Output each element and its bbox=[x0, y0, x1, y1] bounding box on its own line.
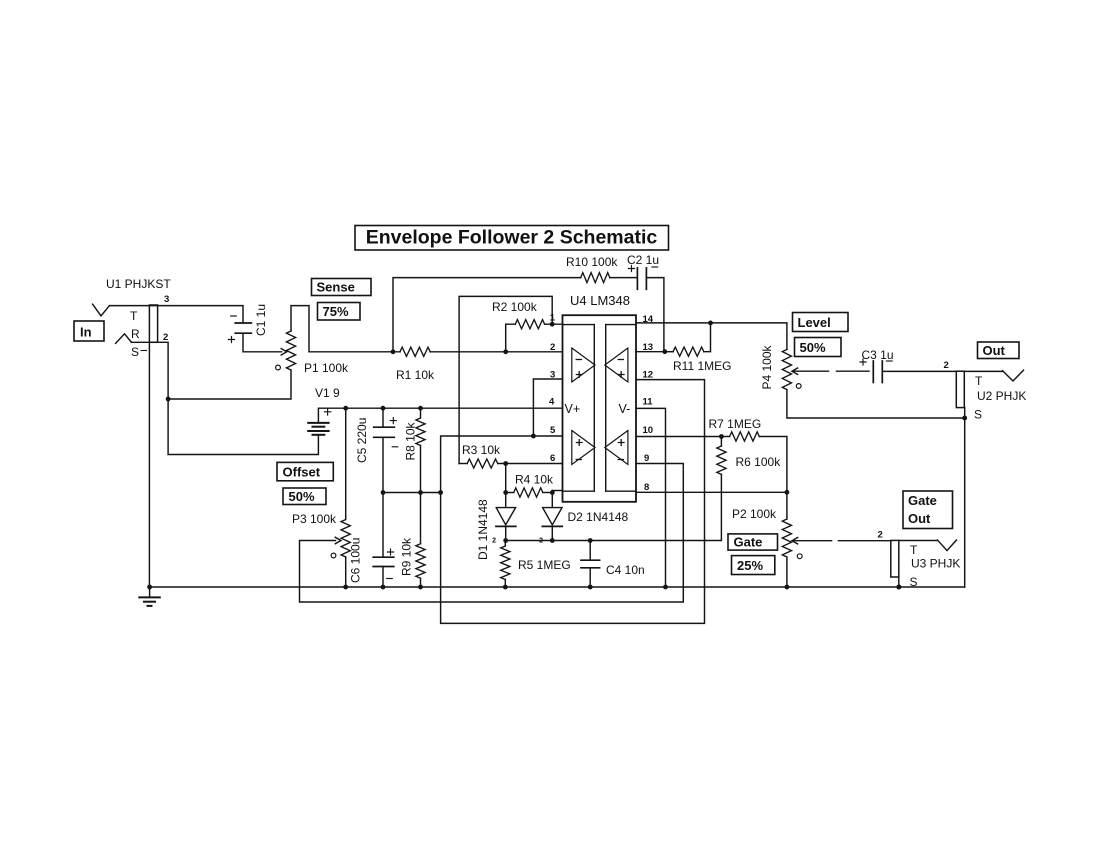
wire P1 top to sense line bbox=[291, 306, 400, 352]
label box Out bbox=[978, 342, 1020, 359]
potentiometer P2 label bbox=[732, 507, 777, 521]
wire R5 bottom leg bbox=[504, 580, 506, 588]
junction U3 sleeve bbox=[896, 585, 901, 590]
wire P1 bottom bbox=[168, 370, 291, 399]
capacitor C6 value label bbox=[349, 538, 363, 583]
svg-text:2: 2 bbox=[878, 530, 883, 541]
svg-text:D2 1N4148: D2 1N4148 bbox=[568, 510, 629, 524]
capacitor C2 polarity bbox=[629, 266, 658, 272]
resistor R11 zigzag bbox=[673, 347, 704, 356]
svg-text:2: 2 bbox=[944, 360, 949, 371]
junction V+ rail / R8 bbox=[418, 406, 423, 411]
junction pin13/C2/R11 bbox=[662, 349, 667, 354]
jack U3 labels bbox=[910, 543, 961, 589]
junction C4/rail bbox=[588, 538, 593, 543]
svg-text:Gate: Gate bbox=[908, 493, 937, 508]
svg-text:P3 100k: P3 100k bbox=[292, 512, 337, 526]
op-amp U4 triangle C bbox=[605, 348, 628, 382]
svg-text:Envelope Follower 2 Schematic: Envelope Follower 2 Schematic bbox=[366, 227, 658, 249]
wire R4 right lead bbox=[543, 492, 553, 494]
label box 50% left bbox=[283, 488, 326, 505]
svg-text:8: 8 bbox=[644, 482, 649, 493]
diode D1 value label bbox=[476, 499, 490, 560]
battery V1 plates bbox=[308, 423, 328, 435]
capacitor C5 plates bbox=[374, 427, 395, 437]
svg-text:V1 9: V1 9 bbox=[315, 386, 340, 400]
resistor R4 label bbox=[515, 473, 554, 487]
svg-text:C6 100u: C6 100u bbox=[349, 538, 363, 583]
jack U2 labels bbox=[974, 374, 1026, 422]
wire detector rail bbox=[506, 474, 722, 540]
svg-text:R3 10k: R3 10k bbox=[462, 443, 501, 457]
svg-text:R6 100k: R6 100k bbox=[736, 455, 782, 469]
pin 2 label bbox=[550, 342, 555, 353]
pin 8 label bbox=[644, 482, 649, 493]
capacitor C5 value label bbox=[355, 418, 369, 463]
op-amp U4 inner lines bbox=[563, 325, 637, 492]
junction rail/C6 bbox=[381, 585, 386, 590]
capacitor C3 plates bbox=[873, 361, 882, 383]
capacitor C3 polarity bbox=[860, 359, 892, 365]
diode D2 value label bbox=[568, 510, 629, 524]
capacitor C4 plates bbox=[581, 560, 600, 568]
wire C4 bottom leg bbox=[589, 568, 591, 587]
wire R11 left lead bbox=[665, 351, 673, 353]
wire pin7 stub bbox=[552, 490, 562, 492]
svg-text:C4 10n: C4 10n bbox=[606, 563, 645, 577]
wire V+ rail battery to pin4 bbox=[318, 408, 562, 423]
resistor R11 label bbox=[673, 359, 731, 373]
resistor R2 zigzag bbox=[515, 320, 544, 329]
junction rail/U3 sleeve bbox=[897, 585, 902, 590]
svg-text:T: T bbox=[910, 543, 918, 557]
resistor R6 label bbox=[736, 455, 782, 469]
resistor R10 label bbox=[566, 255, 618, 269]
potentiometer P2 zigzag bbox=[782, 519, 791, 557]
wire R2 left leg bbox=[506, 324, 516, 352]
jack U3 tip wire and hook bbox=[899, 540, 957, 551]
pin 6 label bbox=[550, 453, 555, 464]
label box Gate Out bbox=[903, 491, 953, 529]
wire R3 left lead bbox=[459, 463, 467, 465]
label box Offset bbox=[277, 462, 333, 480]
pin 14 label bbox=[643, 314, 654, 325]
wire C3 to jack U2 bbox=[882, 370, 956, 372]
svg-text:Out: Out bbox=[908, 511, 931, 526]
wire R8 bottom leg bbox=[420, 446, 422, 493]
junction feedback-rail/pin2 wire bbox=[391, 349, 396, 354]
svg-text:75%: 75% bbox=[323, 304, 349, 319]
capacitor C1 value label bbox=[254, 304, 268, 336]
junction R4 right / pin7 / D2 bbox=[550, 490, 555, 495]
jack U1 PHJKST label bbox=[106, 277, 171, 291]
svg-text:P1 100k: P1 100k bbox=[304, 361, 349, 375]
junction rail/R5 bbox=[503, 585, 508, 590]
resistor R3 label bbox=[462, 443, 501, 457]
wire pin3 to pin5 junction bbox=[533, 379, 562, 436]
svg-text:U1 PHJKST: U1 PHJKST bbox=[106, 277, 171, 291]
jack U3 body bbox=[891, 540, 899, 577]
jack U2 tip wire and hook bbox=[964, 370, 1023, 381]
wire pin5 to bias corner bbox=[441, 436, 563, 493]
capacitor C4 value label bbox=[606, 563, 645, 577]
junction pin14/R11 bbox=[708, 321, 713, 326]
junction D1/R5/rail bbox=[503, 538, 508, 543]
junction rail/P2 bbox=[785, 585, 790, 590]
battery V1 label bbox=[315, 386, 340, 400]
junction U2 sleeve bbox=[962, 416, 967, 421]
resistor R10 zigzag bbox=[581, 273, 610, 283]
label box 50% right bbox=[795, 338, 842, 357]
resistor R2 label bbox=[492, 300, 538, 314]
svg-text:R11 1MEG: R11 1MEG bbox=[673, 359, 731, 373]
potentiometer P1 zigzag bbox=[286, 331, 295, 370]
wire P2 bottom leg bbox=[786, 557, 788, 587]
junction pin8/R7/P2 bbox=[785, 490, 790, 495]
wire R9 top leg bbox=[420, 493, 422, 544]
ground rail bbox=[149, 586, 964, 588]
junction R2/pin2 wire bbox=[503, 349, 508, 354]
op-amp U4 V- label bbox=[619, 402, 631, 416]
potentiometer P4 value label bbox=[760, 344, 774, 389]
jack U2 pin2 label bbox=[944, 360, 949, 371]
svg-text:2: 2 bbox=[163, 332, 168, 343]
svg-text:50%: 50% bbox=[800, 340, 826, 355]
potentiometer P4 zigzag bbox=[782, 349, 791, 389]
potentiometer P2 wiper wire bbox=[792, 538, 891, 544]
junction V+ rail / C5 bbox=[381, 406, 386, 411]
svg-text:U4 LM348: U4 LM348 bbox=[570, 293, 630, 308]
label box Level bbox=[793, 313, 849, 332]
jack U1 pin 2 label bbox=[163, 332, 168, 343]
wire pin1 loop to R3 bbox=[459, 296, 552, 463]
wire U3 sleeve stub bbox=[898, 577, 900, 587]
svg-text:6: 6 bbox=[550, 453, 555, 464]
svg-text:R4 10k: R4 10k bbox=[515, 473, 554, 487]
ground symbol bbox=[139, 587, 160, 606]
pin 12 label bbox=[643, 370, 654, 381]
junction rail/pin11 bbox=[663, 585, 668, 590]
wire P3 bottom leg bbox=[345, 557, 347, 587]
svg-text:P4 100k: P4 100k bbox=[760, 344, 774, 389]
wire bias to pin12 bbox=[441, 380, 705, 624]
junction R3/pin6/D1 branch bbox=[503, 461, 508, 466]
junction pin10/R7/R6 bbox=[719, 434, 724, 439]
svg-text:Sense: Sense bbox=[317, 280, 355, 295]
jack U1 pin 3 label bbox=[164, 294, 169, 305]
svg-text:P2 100k: P2 100k bbox=[732, 507, 777, 521]
potentiometer P2 body circle bbox=[797, 554, 802, 559]
potentiometer P3 body circle bbox=[331, 553, 336, 558]
svg-text:C2 1u: C2 1u bbox=[627, 253, 659, 267]
diode D1 1N4148 bbox=[496, 508, 516, 541]
wire pin14 to P4 top bbox=[636, 323, 787, 350]
resistor R3 zigzag bbox=[467, 459, 498, 468]
svg-text:R2 100k: R2 100k bbox=[492, 300, 538, 314]
jack U1 tip hook bbox=[93, 304, 110, 316]
wire C5 top leg bbox=[382, 408, 384, 427]
wire R11 right leg up bbox=[704, 323, 711, 352]
pin 5 label bbox=[550, 425, 556, 436]
wire R9 bottom leg bbox=[420, 578, 422, 587]
resistor R5 label bbox=[518, 558, 571, 572]
capacitor C6 polarity bbox=[387, 549, 394, 579]
wire R2 right to pin1 bbox=[545, 323, 563, 325]
op-amp U4 outer box bbox=[563, 315, 637, 502]
junction V+ rail / P3 bbox=[343, 406, 348, 411]
pin 4 label bbox=[549, 397, 555, 408]
op-amp U4 V+ label bbox=[565, 402, 581, 416]
svg-text:11: 11 bbox=[643, 397, 654, 408]
svg-text:C3 1u: C3 1u bbox=[862, 348, 894, 362]
svg-text:V-: V- bbox=[619, 402, 631, 416]
svg-text:C1 1u: C1 1u bbox=[254, 304, 268, 336]
resistor R1 label bbox=[396, 368, 435, 382]
jack U3 pin2 label bbox=[878, 530, 883, 541]
junction bias rail / C6 bbox=[381, 490, 386, 495]
svg-text:R: R bbox=[131, 327, 140, 341]
diode D2 1N4148 bbox=[542, 508, 562, 541]
svg-text:Out: Out bbox=[983, 343, 1006, 358]
svg-text:R5 1MEG: R5 1MEG bbox=[518, 558, 571, 572]
svg-text:T: T bbox=[130, 309, 138, 323]
potentiometer P3 label bbox=[292, 512, 337, 526]
potentiometer P4 body circle bbox=[796, 384, 801, 389]
wire U2 sleeve down bbox=[964, 408, 966, 587]
wire P3 wiper to pin9 bbox=[300, 464, 684, 603]
resistor R5 zigzag bbox=[501, 546, 510, 580]
wire C5 bottom leg bbox=[382, 437, 384, 492]
op-amp U4 triangle D bbox=[605, 431, 628, 465]
svg-text:12: 12 bbox=[643, 370, 654, 381]
svg-text:2: 2 bbox=[492, 538, 496, 545]
junction bias rail / R9 bbox=[418, 490, 423, 495]
wire R4 left lead bbox=[506, 492, 514, 494]
wire R5 top leg bbox=[504, 541, 506, 547]
svg-text:Offset: Offset bbox=[283, 465, 321, 480]
svg-text:50%: 50% bbox=[289, 489, 315, 504]
svg-text:D1 1N4148: D1 1N4148 bbox=[476, 499, 490, 560]
potentiometer P1 body circle bbox=[276, 365, 281, 370]
junction rail/R9 bbox=[418, 585, 423, 590]
resistor R8 zigzag bbox=[416, 418, 425, 446]
wire R7 left lead bbox=[721, 436, 729, 438]
label box 25% bbox=[732, 556, 775, 575]
svg-text:25%: 25% bbox=[737, 558, 763, 573]
capacitor C3 value label bbox=[862, 348, 894, 362]
junction D2/rail bbox=[550, 538, 555, 543]
wire C1 bottom to P1 wiper bbox=[243, 333, 287, 355]
pin 1 label bbox=[550, 313, 556, 324]
capacitor C1 plates bbox=[235, 323, 251, 333]
svg-text:S: S bbox=[974, 408, 982, 422]
pin 13 label bbox=[643, 342, 654, 353]
svg-text:2: 2 bbox=[550, 342, 555, 353]
svg-text:U3 PHJK: U3 PHJK bbox=[911, 557, 960, 571]
jack U1 ring hook bbox=[116, 334, 132, 344]
wire battery loop bbox=[168, 399, 318, 455]
jack U1 labels T R S bbox=[130, 309, 147, 359]
wire R3 to pin6 bbox=[498, 463, 563, 465]
svg-text:10: 10 bbox=[643, 425, 654, 436]
wire R7 right lead to node bbox=[759, 437, 787, 520]
resistor R4 zigzag bbox=[514, 488, 543, 497]
wire pin8 to gate node bbox=[636, 491, 787, 493]
jack U2 body bbox=[956, 371, 964, 407]
wire C2 to pin13 bbox=[646, 278, 664, 352]
wire C6 top leg bbox=[382, 493, 384, 558]
wire C6 bottom leg bbox=[382, 567, 384, 588]
label box In bbox=[74, 321, 104, 341]
wire R1 to pin2 bbox=[430, 351, 562, 353]
wire pin6 branch down to D1 bbox=[505, 464, 507, 508]
op-amp U4 name label bbox=[570, 293, 630, 308]
capacitor C2 plates bbox=[637, 268, 646, 289]
svg-text:Gate: Gate bbox=[734, 535, 763, 550]
svg-text:R8 10k: R8 10k bbox=[404, 421, 418, 460]
wire sleeve to ground rail bbox=[148, 342, 150, 587]
svg-text:R1 10k: R1 10k bbox=[396, 368, 435, 382]
capacitor C2 value label bbox=[627, 253, 659, 267]
resistor R1 zigzag bbox=[400, 347, 430, 356]
potentiometer P4 wiper wire bbox=[792, 368, 869, 374]
jack U1 body bbox=[149, 305, 157, 342]
wire ring (pin2) down bbox=[132, 342, 169, 399]
wire pin11 to ground rail bbox=[636, 408, 666, 587]
potentiometer P3 zigzag bbox=[341, 520, 350, 558]
resistor R9 zigzag bbox=[416, 544, 425, 578]
pin 10 label bbox=[643, 425, 654, 436]
svg-text:C5 220u: C5 220u bbox=[355, 418, 369, 463]
resistor R6 zigzag bbox=[717, 446, 726, 474]
svg-text:R7 1MEG: R7 1MEG bbox=[709, 417, 762, 431]
label box Sense bbox=[312, 279, 372, 296]
junction R4 left bbox=[503, 490, 508, 495]
pin 11 label bbox=[643, 397, 654, 408]
op-amp U4 triangle B bbox=[572, 431, 595, 465]
wire mid bias rail bbox=[383, 492, 441, 494]
wire feedback rail left leg bbox=[393, 278, 581, 352]
junction ground/sleeve bbox=[147, 585, 152, 590]
resistor R7 zigzag bbox=[730, 432, 760, 441]
wire pin7 down to D2 bbox=[551, 491, 553, 508]
diode D1 pin2 mark bbox=[492, 538, 496, 545]
svg-text:1: 1 bbox=[550, 313, 556, 324]
svg-text:R10 100k: R10 100k bbox=[566, 255, 618, 269]
junction rail/C4 bbox=[588, 585, 593, 590]
pin 9 label bbox=[644, 453, 649, 464]
resistor R8 value label bbox=[404, 421, 418, 460]
capacitor C1 polarity bbox=[229, 316, 237, 343]
resistor R7 label bbox=[709, 417, 762, 431]
diode D2 pin2 mark bbox=[539, 538, 543, 545]
capacitor C5 polarity bbox=[390, 418, 398, 447]
wire R6 top leg bbox=[720, 437, 722, 447]
svg-text:U2 PHJK: U2 PHJK bbox=[977, 389, 1026, 403]
svg-text:S: S bbox=[131, 345, 139, 359]
label box 75% bbox=[318, 303, 361, 321]
junction jackR/P1/battery bbox=[166, 397, 171, 402]
wire P4 bottom to sleeve bbox=[787, 390, 965, 418]
pin 3 label bbox=[550, 370, 555, 381]
wire pin13 stub bbox=[636, 351, 665, 353]
wire pin10 stub bbox=[636, 436, 721, 438]
svg-text:9: 9 bbox=[644, 453, 649, 464]
wire tip (pin3) to C1 bbox=[109, 306, 243, 323]
svg-text:T: T bbox=[975, 374, 983, 388]
svg-text:5: 5 bbox=[550, 425, 556, 436]
op-amp U4 triangle A bbox=[572, 348, 595, 382]
svg-text:Level: Level bbox=[798, 315, 831, 330]
battery V1 polarity bbox=[324, 409, 330, 415]
wire R10 to C2 bbox=[610, 277, 637, 279]
junction rail/P3 bbox=[343, 585, 348, 590]
wire P3 top leg bbox=[345, 408, 347, 519]
potentiometer P1 label bbox=[304, 361, 349, 375]
resistor R9 value label bbox=[400, 537, 414, 576]
svg-text:3: 3 bbox=[164, 294, 169, 305]
capacitor C6 plates bbox=[373, 557, 394, 566]
title box 'Envelope Follower 2 Schematic' bbox=[355, 226, 669, 251]
junction pin3/pin5 bbox=[531, 434, 536, 439]
label box Gate bbox=[728, 534, 778, 550]
junction bias rail corner bbox=[438, 490, 443, 495]
svg-text:4: 4 bbox=[549, 397, 555, 408]
junction pin1/R2 bbox=[550, 322, 555, 327]
svg-text:V+: V+ bbox=[565, 402, 581, 416]
wire C4 top leg bbox=[589, 541, 591, 561]
wire R8 top leg bbox=[420, 408, 422, 418]
svg-text:R9 10k: R9 10k bbox=[400, 537, 414, 576]
svg-text:In: In bbox=[80, 325, 92, 340]
